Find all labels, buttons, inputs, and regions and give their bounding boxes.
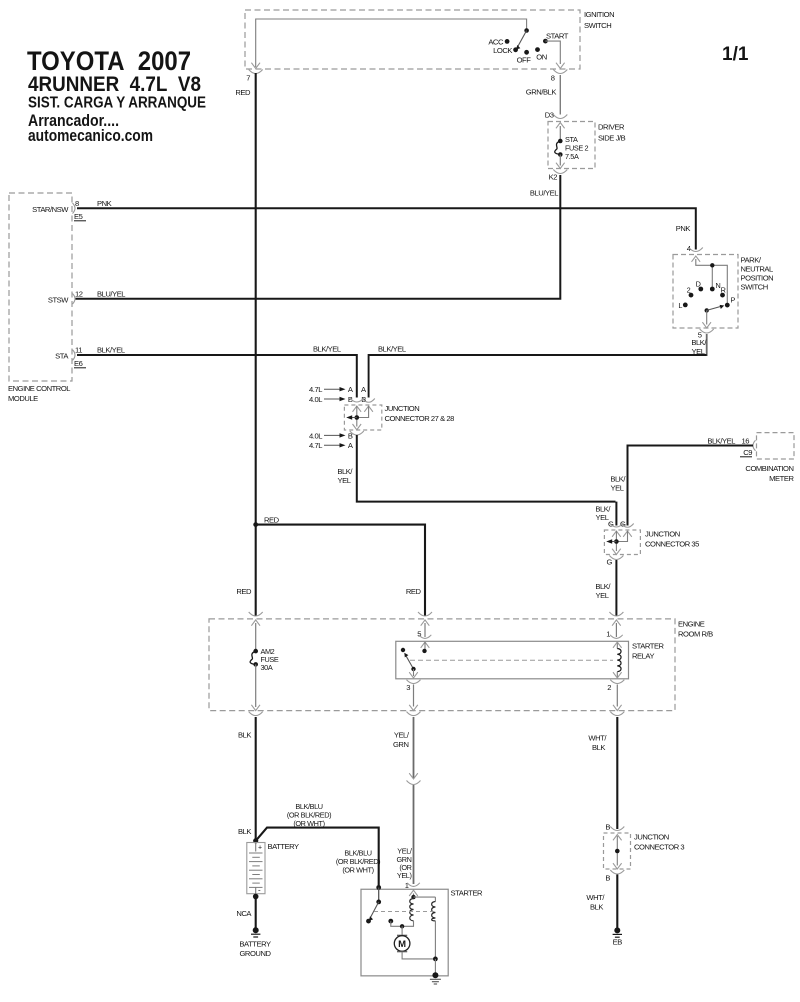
svg-text:7.5A: 7.5A [565, 152, 579, 161]
svg-text:ROOM R/B: ROOM R/B [678, 630, 713, 639]
svg-text:BLK/YEL: BLK/YEL [378, 345, 406, 354]
svg-text:BLK: BLK [238, 827, 251, 836]
svg-text:8: 8 [551, 74, 555, 83]
park/neutral position switch box [673, 255, 773, 329]
fuse STA FUSE 2 7.5A [555, 126, 589, 166]
node coil2/motor junction [433, 957, 438, 962]
title block [27, 44, 749, 145]
relay contact pivot [401, 648, 405, 652]
svg-text:2: 2 [607, 683, 611, 692]
engine room R/B box [209, 619, 713, 711]
svg-text:B: B [348, 431, 353, 440]
svg-text:MODULE: MODULE [8, 394, 38, 403]
J3 entry arrow [613, 835, 622, 841]
ignition contact ACC [505, 39, 510, 44]
svg-text:RELAY: RELAY [632, 652, 654, 661]
bottom pin labels [309, 431, 354, 450]
relay contact fixed [422, 649, 426, 653]
pin A cap [350, 398, 364, 402]
R/B exit flares [249, 712, 263, 716]
svg-text:BLK/YEL: BLK/YEL [97, 346, 125, 355]
svg-text:YEL: YEL [595, 591, 608, 600]
ECM pin 12 STSW [48, 289, 83, 304]
entry arrows [612, 531, 621, 537]
svg-text:BLU/YEL: BLU/YEL [97, 289, 125, 298]
wire BLK/YEL to combination meter [628, 446, 754, 526]
svg-text:YEL: YEL [610, 484, 623, 493]
engine control module box [8, 193, 72, 403]
svg-text:D3: D3 [545, 111, 554, 120]
motor M1 [394, 935, 410, 951]
wire BLK/YEL from J27 down to J35 [357, 435, 616, 502]
svg-text:C9: C9 [743, 448, 752, 457]
svg-text:BATTERY: BATTERY [268, 842, 300, 851]
svg-text:JUNCTION: JUNCTION [634, 833, 669, 842]
wire RED branch to relay pin 5 [256, 525, 425, 616]
pin 7 arrow [251, 63, 260, 69]
svg-text:GRN/BLK: GRN/BLK [526, 88, 557, 97]
P/N lever [705, 305, 725, 325]
svg-text:SIDE J/B: SIDE J/B [598, 134, 626, 143]
starter solenoid junction [413, 894, 415, 898]
combination meter pin bracket [753, 440, 756, 451]
svg-text:PARK/: PARK/ [741, 256, 762, 265]
svg-text:BLK: BLK [592, 743, 605, 752]
svg-text:2: 2 [687, 286, 691, 295]
entry arrows [353, 406, 362, 412]
svg-text:4.0L: 4.0L [309, 395, 322, 404]
starter coil 1 [410, 899, 414, 921]
node RED branch dot [253, 522, 258, 527]
svg-text:RED: RED [235, 88, 251, 97]
wire BLK to battery [255, 717, 257, 841]
svg-text:YEL: YEL [337, 476, 350, 485]
contact L [683, 303, 688, 308]
svg-text:JUNCTION: JUNCTION [385, 404, 420, 413]
svg-text:4.7L: 4.7L [309, 441, 322, 450]
svg-text:PNK: PNK [97, 199, 112, 208]
svg-text:SWITCH: SWITCH [584, 21, 611, 30]
svg-text:COMBINATION: COMBINATION [745, 464, 793, 473]
wire NCA to battery ground [255, 897, 257, 930]
relay pin 3 [413, 669, 415, 676]
ignition contact LOCK [513, 47, 518, 52]
svg-text:YEL/: YEL/ [394, 731, 410, 740]
svg-text:GROUND: GROUND [239, 949, 271, 958]
contact R [720, 293, 725, 298]
svg-text:M: M [398, 939, 406, 950]
svg-text:PNK: PNK [676, 224, 691, 233]
wire BLK/YEL from pin5 down [706, 334, 708, 356]
wire BLU/YEL from K2 to ECM STSW [75, 175, 560, 299]
starter ground [430, 972, 441, 984]
svg-text:DRIVER: DRIVER [598, 123, 625, 132]
svg-text:ON: ON [536, 52, 547, 61]
svg-text:4RUNNER 4.7L V8: 4RUNNER 4.7L V8 [28, 73, 201, 96]
svg-text:+: + [258, 845, 262, 852]
junction dot [614, 539, 619, 544]
svg-text:(OR WHT): (OR WHT) [293, 819, 324, 828]
svg-text:1/1: 1/1 [722, 44, 749, 65]
svg-text:BLK: BLK [590, 903, 603, 912]
svg-text:NCA: NCA [236, 909, 252, 918]
pin B cap [362, 399, 374, 403]
svg-text:K2: K2 [549, 173, 558, 182]
wire WHT/BLK relay pin2 down [616, 717, 618, 829]
svg-text:OFF: OFF [517, 56, 532, 65]
exit arrow [612, 549, 621, 555]
starter switch contact upper [378, 888, 380, 902]
svg-text:NEUTRAL: NEUTRAL [741, 265, 774, 274]
svg-text:BATTERY: BATTERY [239, 940, 271, 949]
wire BLK/YEL right segment to P/N pin 5 [369, 355, 707, 398]
ignition start wire to pin 8 [545, 41, 560, 64]
svg-text:12: 12 [75, 289, 83, 298]
svg-text:BLK: BLK [238, 731, 251, 740]
svg-text:1: 1 [606, 630, 610, 639]
svg-text:JUNCTION: JUNCTION [645, 530, 680, 539]
ignition switch box [245, 10, 614, 69]
svg-text:E6: E6 [74, 359, 83, 368]
svg-text:7: 7 [246, 74, 250, 83]
junction connector 35 box [604, 530, 699, 555]
svg-text:30A: 30A [261, 663, 273, 672]
svg-text:STARTER: STARTER [632, 642, 665, 651]
svg-text:BLK/: BLK/ [610, 475, 626, 484]
left arrow from dot [350, 417, 357, 419]
svg-text:IGNITION: IGNITION [584, 10, 614, 19]
wire YEL/GRN relay pin3 to starter [413, 717, 415, 778]
svg-text:STARTER: STARTER [451, 889, 484, 898]
P/N pin 5 exit arrow [702, 322, 711, 328]
junction connector 27&28 pin labels top [309, 385, 367, 404]
svg-text:11: 11 [75, 346, 82, 355]
svg-text:1: 1 [405, 881, 409, 890]
ignition contact labels [488, 32, 568, 65]
svg-text:BLK/: BLK/ [691, 338, 707, 347]
svg-text:3: 3 [406, 683, 410, 692]
ignition contact ON [535, 47, 540, 52]
svg-text:4.0L: 4.0L [309, 431, 322, 440]
svg-text:G: G [607, 558, 613, 567]
contact labels [678, 279, 735, 310]
svg-text:BLU/YEL: BLU/YEL [530, 189, 558, 198]
J3 exit flare [610, 870, 624, 874]
pin caps [609, 523, 623, 527]
junction dot [355, 415, 360, 420]
starter linkage dashed [374, 911, 434, 913]
svg-text:16: 16 [741, 437, 749, 446]
ground EB [613, 927, 623, 946]
wire GRN/BLK [559, 75, 561, 115]
contact 2 [689, 293, 694, 298]
svg-text:L: L [678, 301, 682, 310]
svg-text:WHT/: WHT/ [588, 734, 607, 743]
svg-text:ENGINE: ENGINE [678, 620, 705, 629]
junction connector 3 box [604, 833, 685, 870]
J3 exit arrow [613, 863, 622, 869]
exit flare [350, 431, 364, 435]
svg-text:SIST. CARGA Y ARRANQUE: SIST. CARGA Y ARRANQUE [28, 95, 206, 112]
contact D [698, 287, 703, 292]
ignition contact OFF [524, 50, 529, 55]
R/B exit arrows [251, 705, 260, 711]
pin 7 flare [249, 70, 263, 74]
AM2 fuse 30A [250, 623, 279, 707]
svg-text:START: START [546, 32, 569, 41]
node motor tap [400, 924, 404, 928]
wire RED main column [255, 73, 257, 616]
svg-text:B: B [605, 823, 610, 832]
wire BLK/YEL down to engine room R/B [615, 560, 617, 616]
svg-text:POSITION: POSITION [741, 274, 774, 283]
relay lever [406, 656, 414, 669]
J3 internal wire [616, 836, 618, 866]
node junction dot [710, 263, 714, 267]
ignition lever [516, 28, 529, 49]
svg-text:YEL: YEL [595, 513, 608, 522]
relay pin 2 [613, 672, 622, 678]
ignition internal wire from pin 7 [256, 19, 527, 67]
exit arrow [353, 424, 362, 430]
svg-text:(OR WHT): (OR WHT) [342, 866, 373, 875]
svg-text:YEL): YEL) [397, 871, 412, 880]
node battery positive junction [253, 838, 258, 843]
left arrow from dot [610, 541, 616, 543]
ECM pin 8 STAR/NSW [32, 199, 86, 221]
starter entry dot [376, 885, 381, 890]
svg-text:4.7L: 4.7L [309, 385, 322, 394]
svg-text:R: R [721, 286, 726, 295]
battery bottom terminal dot [253, 894, 259, 900]
svg-text:E5: E5 [74, 212, 83, 221]
relay lever end dot [411, 667, 415, 671]
wire BLK/YEL from STA to junction connector 27&28 [77, 355, 357, 398]
contact N [710, 287, 715, 292]
P/N switch entry arrow [692, 256, 701, 262]
svg-text:automecanico.com: automecanico.com [28, 126, 153, 145]
svg-text:EB: EB [613, 938, 623, 947]
ECM pin 11 STA [55, 346, 86, 369]
svg-text:CONNECTOR 3: CONNECTOR 3 [634, 843, 684, 852]
wire break symbol [409, 773, 418, 779]
svg-text:ENGINE CONTROL: ENGINE CONTROL [8, 384, 70, 393]
wire corner into J35 left pin [615, 502, 617, 526]
svg-text:TOYOTA 2007: TOYOTA 2007 [27, 46, 191, 76]
svg-text:P: P [731, 296, 736, 305]
driver side J/B box [548, 122, 626, 169]
svg-text:METER: METER [769, 474, 794, 483]
starter box [361, 889, 483, 976]
svg-text:STA: STA [55, 352, 69, 361]
svg-text:B: B [605, 874, 610, 883]
combination meter [745, 433, 794, 483]
wire BLK/BLU battery to starter [256, 828, 379, 887]
internal wires J35 [616, 531, 627, 542]
svg-text:CONNECTOR 35: CONNECTOR 35 [645, 540, 699, 549]
svg-text:8: 8 [75, 199, 79, 208]
wire PNK from ECM to park/neutral switch [77, 208, 696, 249]
R/B entry arrows [251, 620, 260, 626]
svg-text:D: D [696, 279, 701, 288]
pin 8 arrow [556, 63, 565, 69]
svg-text:BLK/: BLK/ [337, 467, 353, 476]
J/B exit arrow [556, 163, 565, 169]
svg-text:SWITCH: SWITCH [741, 283, 768, 292]
relay linkage dashed [410, 659, 613, 661]
svg-text:-: - [258, 886, 261, 895]
svg-text:GRN: GRN [393, 740, 409, 749]
svg-text:STSW: STSW [48, 295, 69, 304]
relay coil [616, 642, 618, 649]
starter switch lever [370, 902, 378, 918]
battery ground terminal [239, 927, 271, 958]
junction connector 27&28 box [344, 404, 454, 430]
arrows 4.7L/4.0L top [324, 389, 341, 399]
pin 8 flare [553, 70, 567, 74]
contact P [725, 303, 730, 308]
internal wires J27 [357, 406, 369, 418]
motor to ground wire [402, 952, 435, 959]
svg-text:BLK/: BLK/ [595, 582, 611, 591]
svg-text:STAR/NSW: STAR/NSW [32, 205, 69, 214]
svg-text:LOCK: LOCK [493, 46, 512, 55]
J3 dot [615, 849, 620, 854]
P/N internal wiring [696, 259, 728, 303]
pin 5 flare [700, 329, 714, 333]
svg-text:WHT/: WHT/ [586, 893, 605, 902]
svg-text:RED: RED [264, 516, 280, 525]
starter coil 2 [432, 902, 436, 921]
ignition contact START [543, 39, 548, 44]
svg-text:BLK/YEL: BLK/YEL [313, 345, 341, 354]
RED entry cap into R/B [249, 612, 263, 616]
svg-text:CONNECTOR 27 & 28: CONNECTOR 27 & 28 [385, 414, 455, 423]
svg-text:BLK/YEL: BLK/YEL [707, 437, 735, 446]
battery B1 [247, 842, 299, 897]
starter relay box [396, 641, 665, 679]
starter lower contact [388, 919, 393, 924]
J/B entry arrow [556, 123, 565, 129]
svg-text:RED: RED [406, 587, 422, 596]
exit flare [609, 556, 623, 560]
wire WHT/BLK to EB [616, 875, 618, 930]
node K2 flare [553, 170, 567, 174]
svg-text:RED: RED [236, 587, 252, 596]
